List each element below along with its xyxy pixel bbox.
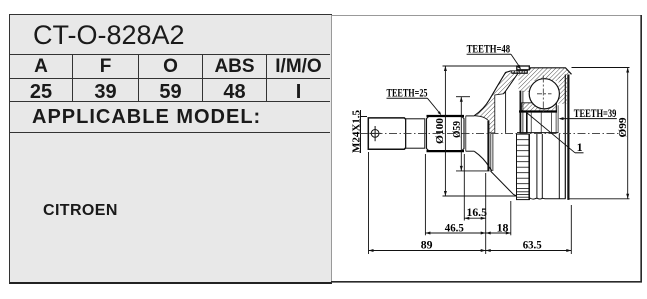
title row underline (10, 54, 330, 55)
dia99 dimension (569, 68, 630, 199)
label M24X1.5 (351, 110, 367, 153)
housing top edge (512, 68, 572, 75)
svg-text:46.5: 46.5 (445, 220, 464, 234)
svg-text:TEETH=25: TEETH=25 (387, 87, 428, 99)
cage left section hatch (519, 73, 531, 92)
shaft neck (406, 119, 425, 148)
applicable model row (32, 102, 322, 132)
header cells (10, 55, 72, 79)
flare exterior bottom diagonal (491, 171, 517, 196)
label dia 59 (451, 121, 463, 138)
label 1 (527, 113, 584, 155)
drawing panel (331, 15, 642, 283)
svg-text:TEETH=48: TEETH=48 (467, 43, 511, 55)
mouth opening chamfer (504, 73, 519, 94)
ABS tone ring teeth48 (512, 66, 530, 73)
svg-text:1: 1 (577, 140, 583, 154)
svg-text:Ø99: Ø99 (617, 117, 629, 138)
label dia 99 (617, 117, 629, 138)
cage strip left (520, 91, 526, 133)
housing exterior bottom (529, 134, 565, 200)
svg-text:89: 89 (421, 238, 433, 252)
label dia 100 (434, 117, 446, 144)
svg-text:63.5: 63.5 (523, 238, 542, 252)
dim 46.5 (425, 154, 485, 254)
cage right section hatch (559, 77, 568, 105)
race bore lines (531, 103, 558, 133)
value cells (10, 79, 72, 105)
boot shoulder face (488, 121, 493, 171)
flare cone section hatch (474, 71, 518, 133)
threaded stub M24 (368, 118, 406, 149)
flare outer curve (474, 71, 511, 171)
inner race section (519, 103, 557, 112)
column lines header+value rows (72, 55, 73, 101)
boot clamp band striped (517, 134, 530, 200)
dim line dia100 (443, 66, 517, 196)
data table panel (9, 14, 332, 284)
thread symbol (370, 126, 382, 141)
centerline (360, 132, 623, 134)
label TEETH=39 (559, 108, 617, 120)
housing back face (565, 75, 568, 200)
label TEETH=25 (387, 87, 442, 115)
boot seat cylinder outer lines (466, 116, 475, 151)
svg-text:Ø100: Ø100 (434, 117, 446, 144)
dim 16.5 (464, 154, 487, 221)
dim 63.5 (486, 205, 572, 254)
svg-text:16.5: 16.5 (467, 205, 487, 219)
housing wall section hatch (512, 68, 572, 81)
title CT-O-828A2 (33, 17, 323, 54)
mouth bore line (505, 91, 507, 133)
dim 89 (369, 152, 486, 254)
spline section teeth25 (427, 116, 465, 152)
panel border (331, 15, 642, 283)
dim line dia59 (456, 97, 490, 171)
dim 18 (486, 201, 511, 235)
ball (529, 76, 559, 113)
label TEETH=48 (467, 43, 521, 69)
race bore bottom edge (517, 132, 559, 134)
CITROEN (43, 202, 243, 218)
header row separators (10, 78, 330, 79)
